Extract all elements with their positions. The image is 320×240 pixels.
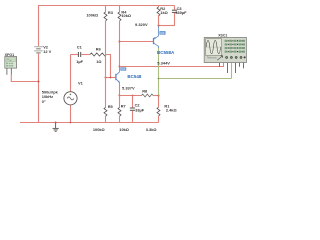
instrument XSC1 oscilloscope — [204, 34, 246, 73]
node junction emitter — [119, 95, 121, 97]
instrument XFG1 — [5, 53, 17, 75]
svg-text:C1: C1 — [77, 45, 83, 50]
svg-text:Q1: Q1 — [121, 67, 125, 71]
capacitor C2 — [132, 96, 134, 108]
svg-text:330µF: 330µF — [175, 10, 187, 15]
wire V1 to C1 — [70, 55, 72, 92]
wire R4 to Q1 collector — [119, 21, 121, 67]
svg-text:10kΩ: 10kΩ — [119, 127, 129, 132]
wire bottom ground rail — [20, 122, 159, 124]
svg-text:100kΩ: 100kΩ — [86, 13, 98, 18]
wire Q1 emitter down — [119, 85, 121, 96]
resistor R8 zigzag — [142, 94, 154, 97]
svg-text:R3: R3 — [108, 10, 114, 15]
wire bias divider vertical — [105, 21, 107, 108]
node junction C2 tap — [132, 95, 134, 97]
svg-text:0°: 0° — [42, 99, 46, 104]
node junction base/bias — [105, 77, 107, 79]
wire R8 to output node — [153, 95, 159, 97]
resistor R1 — [158, 96, 160, 108]
svg-text:Tektronix: Tektronix — [207, 56, 218, 59]
svg-text:R7: R7 — [121, 103, 126, 108]
svg-text:1Ω: 1Ω — [96, 59, 101, 64]
wire V1 to ground rail — [70, 105, 72, 122]
wire base node — [106, 77, 117, 79]
wire green Q2 collector — [158, 48, 160, 96]
resistor R4 — [119, 6, 121, 12]
wire V2 to ground rail — [38, 54, 40, 123]
svg-text:100kΩ: 100kΩ — [93, 127, 105, 132]
node junction XFG/V2 — [38, 81, 40, 83]
svg-text:1µF: 1µF — [76, 59, 83, 64]
source V1 circle — [64, 92, 77, 105]
source V1 sine — [67, 97, 74, 100]
label Q1 — [120, 67, 126, 71]
resistor R5 — [104, 108, 107, 117]
transistor Q1 — [116, 67, 120, 86]
wire XFG1 output — [11, 75, 38, 82]
node junction output — [158, 95, 160, 97]
svg-text:1kΩ: 1kΩ — [160, 10, 167, 15]
resistor R7 — [119, 96, 121, 108]
capacitor C1 — [71, 54, 78, 56]
resistor R2 — [158, 6, 160, 8]
label Q2 — [159, 31, 165, 35]
svg-text:BC558A: BC558A — [157, 50, 175, 55]
svg-text:33µF: 33µF — [135, 107, 145, 112]
wire scope channel A red — [120, 66, 224, 68]
wire R6 to base node — [107, 55, 111, 78]
svg-text:2.4kΩ: 2.4kΩ — [166, 108, 177, 113]
ground — [53, 123, 59, 132]
svg-text:5.337V: 5.337V — [122, 85, 135, 90]
svg-text:10kΩ: 10kΩ — [121, 13, 131, 18]
wire V2 branch upper — [38, 5, 40, 46]
svg-text:Q2: Q2 — [160, 31, 164, 35]
node junction collector/scope — [119, 66, 121, 68]
battery V2 — [34, 47, 43, 53]
svg-text:R5: R5 — [108, 104, 114, 109]
wire top +12V rail — [39, 5, 175, 7]
wire emitter to R8 — [120, 95, 142, 97]
svg-text:3.3kΩ: 3.3kΩ — [146, 127, 157, 132]
wire Q2 base — [120, 41, 154, 43]
svg-text:V1: V1 — [78, 80, 84, 85]
wire Q2 emitter node 9.32V — [159, 25, 175, 27]
resistor R3 — [105, 6, 107, 12]
svg-text:9.320V: 9.320V — [135, 22, 148, 27]
svg-text:BC548: BC548 — [127, 74, 142, 79]
resistor R6 zigzag — [90, 53, 106, 56]
svg-text:5.344V: 5.344V — [157, 60, 170, 65]
node junction Q2 base tap — [119, 41, 121, 43]
svg-text:R8: R8 — [142, 89, 148, 94]
svg-text:12 V: 12 V — [43, 49, 51, 54]
transistor Q2 — [154, 26, 159, 49]
svg-text:R6: R6 — [96, 47, 102, 52]
wire green to scope channel B — [159, 63, 232, 79]
capacitor C3 — [174, 6, 176, 10]
